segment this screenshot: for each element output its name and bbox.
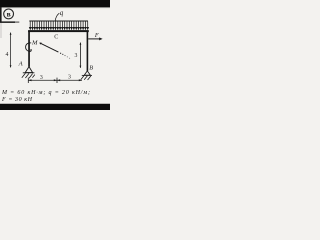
- bottom dimension line: [28, 79, 82, 81]
- svg-text:М = 60 кН·м; q = 20 кН/м;: М = 60 кН·м; q = 20 кН/м;: [1, 90, 90, 96]
- svg-text:3: 3: [75, 53, 78, 59]
- svg-text:3: 3: [68, 75, 71, 81]
- svg-text:C: C: [54, 35, 58, 41]
- svg-text:4: 4: [6, 52, 9, 58]
- left vertical dimension line 4: [10, 33, 12, 68]
- support A hatching: [22, 73, 35, 78]
- beam (horizontal member): [28, 30, 89, 32]
- q leader line: [55, 13, 59, 21]
- bottom black band: [0, 104, 110, 110]
- dimension tick middle: [56, 78, 58, 83]
- support A triangle: [25, 67, 32, 73]
- support A ground line: [23, 72, 35, 74]
- dimension arrowheads: [29, 79, 32, 81]
- F force arrow: [88, 38, 100, 40]
- support B hatching: [81, 76, 91, 80]
- diagonal rod arrowhead: [39, 43, 42, 45]
- svg-text:3: 3: [40, 75, 43, 81]
- svg-text:M: M: [31, 39, 38, 46]
- svg-text:F: F: [94, 32, 99, 39]
- distributed load top line: [29, 20, 88, 22]
- table cell left border: [0, 7, 2, 22]
- diagonal rod solid part: [40, 43, 59, 52]
- moment M arrowhead: [30, 49, 32, 51]
- moment M arc: [26, 43, 32, 52]
- table cell bottom border: [0, 21, 15, 23]
- top black band: [0, 0, 110, 7]
- support B ground line: [82, 74, 92, 76]
- svg-text:в: в: [7, 10, 11, 19]
- svg-text:B: B: [89, 65, 93, 72]
- support B triangle: [84, 71, 90, 75]
- distributed load arrows: [29, 21, 88, 29]
- dimension tick left: [27, 78, 29, 83]
- svg-text:q: q: [60, 9, 64, 17]
- variant circle: [4, 9, 14, 19]
- svg-text:F = 30 кН: F = 30 кН: [1, 97, 33, 103]
- right column member: [87, 31, 89, 71]
- diagonal rod fading dots: [60, 53, 70, 59]
- right vertical dimension line 3: [79, 43, 81, 68]
- left column member: [28, 31, 30, 67]
- background: [0, 0, 110, 110]
